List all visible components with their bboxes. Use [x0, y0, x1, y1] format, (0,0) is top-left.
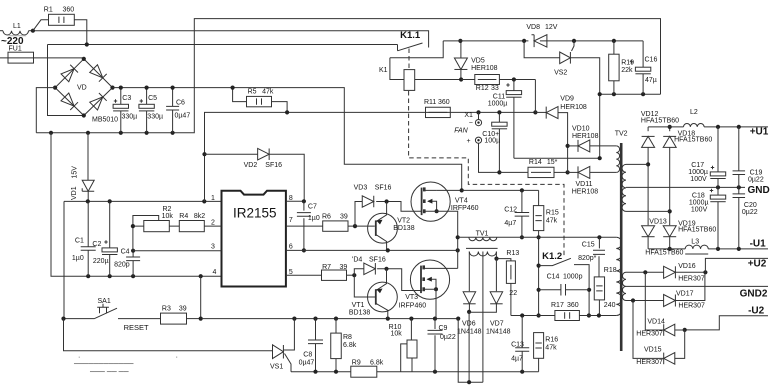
capacitor C4 820p	[132, 251, 134, 277]
wire reset row	[64, 318, 95, 320]
svg-text:C15: C15	[582, 241, 595, 248]
svg-text:C4: C4	[121, 249, 130, 256]
svg-text:C11: C11	[493, 93, 505, 100]
svg-text:VD9: VD9	[560, 96, 574, 103]
svg-text:VD17: VD17	[676, 291, 694, 298]
capacitor C18 1000u 100V	[717, 187, 719, 249]
wire -U1 rail	[648, 248, 768, 250]
svg-text:C18: C18	[692, 193, 705, 200]
svg-text:C12: C12	[504, 206, 517, 213]
svg-text:12V: 12V	[545, 24, 558, 31]
capacitor C8 0u47	[315, 319, 317, 372]
svg-text:HFA15TB60: HFA15TB60	[641, 117, 679, 124]
wire fuse line	[0, 57, 84, 59]
wire aux minus top row	[600, 93, 661, 95]
transformer TV2 primary	[616, 237, 622, 315]
capacitor C17 1000u 100V	[717, 127, 719, 187]
svg-text:K1.1: K1.1	[400, 30, 421, 41]
wire sec1 taps	[632, 164, 670, 211]
svg-text:SF16: SF16	[265, 162, 282, 169]
diode VD6 1N4148	[463, 292, 476, 304]
svg-text:R4: R4	[179, 213, 188, 220]
inductor L1	[0, 30, 3, 32]
svg-text:7: 7	[289, 217, 293, 224]
wire R17 row	[511, 315, 616, 317]
wire TV1 sec right	[495, 252, 497, 259]
svg-text:360: 360	[63, 7, 75, 14]
mech link dashed K1 to K1.2	[409, 91, 564, 258]
svg-text:VS1: VS1	[270, 364, 283, 371]
svg-text:L1: L1	[13, 23, 21, 30]
svg-text:VD8: VD8	[526, 24, 540, 31]
svg-text:FAN: FAN	[454, 127, 468, 134]
wire COM bus	[202, 318, 459, 320]
wire midpoint vertical	[457, 237, 459, 268]
svg-text:6: 6	[289, 244, 293, 251]
svg-text:4µ7: 4µ7	[511, 355, 523, 362]
svg-text:VT2: VT2	[397, 217, 410, 224]
svg-text:R17: R17	[551, 302, 564, 309]
transformer TV2 sec1	[622, 164, 626, 211]
wire +U2 rail	[705, 258, 768, 272]
wire VCC left drop	[63, 201, 65, 318]
zener VD1 15V	[87, 133, 89, 180]
capacitor C3 330u	[120, 88, 122, 133]
svg-text:HER307: HER307	[636, 359, 663, 366]
svg-text:100V: 100V	[691, 207, 708, 214]
capacitor C16 47u	[642, 41, 644, 94]
svg-text:VT3: VT3	[405, 294, 418, 301]
capacitor C11 1000u	[513, 80, 515, 159]
capacitor C1 1u0	[87, 201, 89, 276]
svg-text:10k: 10k	[391, 331, 403, 338]
svg-text:1µ0: 1µ0	[308, 215, 320, 222]
svg-text:VD1: VD1	[71, 186, 78, 200]
transformer TV2 core	[620, 143, 623, 351]
svg-text:HFA15TB60: HFA15TB60	[678, 227, 716, 234]
svg-text:RESET: RESET	[124, 323, 149, 332]
svg-text:100µ: 100µ	[484, 138, 500, 145]
wire TV1 sec left	[468, 252, 470, 292]
watermark	[73, 354, 178, 376]
svg-text:VD5: VD5	[471, 58, 485, 65]
svg-text:FU1: FU1	[9, 46, 22, 53]
svg-text:HER307: HER307	[636, 331, 663, 338]
svg-text:C6: C6	[176, 100, 185, 107]
transformer TV2 sec2	[622, 272, 626, 300]
capacitor C9 0u22	[434, 319, 436, 372]
capacitor C13 4u7	[521, 316, 523, 372]
svg-text:15V: 15V	[72, 166, 79, 179]
svg-text:VD7: VD7	[490, 321, 504, 328]
wire mains line A	[33, 30, 396, 32]
wire -U2 rail	[685, 316, 768, 330]
svg-text:-U2: -U2	[748, 305, 765, 316]
svg-text:R8: R8	[343, 334, 352, 341]
svg-text:22k: 22k	[621, 67, 633, 74]
svg-text:R12: R12	[476, 85, 489, 92]
svg-text:C9: C9	[439, 325, 448, 332]
svg-text:─── ── ──: ─── ── ──	[89, 369, 129, 376]
capacitor C20 0u22	[738, 187, 740, 249]
wire pin3 CT line	[133, 250, 222, 252]
svg-text:'D4: 'D4	[352, 257, 362, 264]
svg-text:TV2: TV2	[615, 131, 628, 138]
resistor R15 47k	[533, 206, 543, 231]
svg-text:C2: C2	[92, 241, 101, 248]
svg-text:47k: 47k	[262, 88, 274, 95]
transistor VT3 IRFP460	[410, 260, 449, 299]
capacitor C7 1u0	[303, 201, 305, 250]
svg-text:R11: R11	[424, 99, 436, 106]
svg-text:VD2: VD2	[244, 162, 258, 169]
svg-text:TV1: TV1	[476, 231, 489, 238]
wire cathode return loop	[458, 312, 483, 382]
svg-text:IRFP460: IRFP460	[451, 205, 479, 212]
svg-text:MB5010: MB5010	[92, 117, 118, 124]
wire mains line B	[48, 45, 398, 116]
svg-text:SA1: SA1	[98, 298, 111, 305]
svg-text:330µ: 330µ	[122, 114, 138, 121]
resistor R18 240	[594, 277, 604, 300]
svg-text:HER108: HER108	[471, 65, 498, 72]
svg-text:HFA15TB60: HFA15TB60	[645, 250, 683, 257]
svg-text:47k: 47k	[546, 218, 558, 225]
svg-text:+U2: +U2	[748, 259, 767, 270]
svg-text:360: 360	[438, 99, 450, 106]
svg-text:220µ: 220µ	[93, 258, 109, 265]
svg-text:360: 360	[567, 302, 579, 309]
svg-text:IR2155: IR2155	[233, 206, 277, 221]
svg-text:HFA15TB60: HFA15TB60	[674, 137, 712, 144]
op-amp U1 IR2155	[222, 191, 286, 287]
svg-text:C5: C5	[148, 95, 157, 102]
svg-text:BD138: BD138	[349, 310, 371, 317]
svg-text:R15: R15	[546, 210, 559, 217]
svg-text:-U1: -U1	[750, 239, 767, 250]
wire VCC pin1 line	[64, 200, 222, 202]
wire COM riser pin4	[200, 276, 202, 318]
svg-text:VT1: VT1	[352, 302, 365, 309]
svg-text:100V: 100V	[690, 176, 707, 183]
svg-text:+: +	[467, 138, 471, 145]
svg-text:4: 4	[213, 269, 217, 276]
svg-text:HER108: HER108	[572, 133, 599, 140]
svg-text:R9: R9	[352, 360, 361, 367]
resistor R8 6.8k	[335, 319, 337, 372]
svg-text:IRFP460: IRFP460	[399, 303, 427, 310]
svg-text:1N4148: 1N4148	[486, 329, 511, 336]
svg-text:0µ22: 0µ22	[440, 334, 456, 341]
svg-text:47µ: 47µ	[645, 77, 657, 84]
svg-text:8: 8	[289, 195, 293, 202]
transistor VT4 IRFP460	[411, 182, 450, 221]
wire vcc feed line	[205, 112, 536, 154]
bridge rectifier VD MB5010	[55, 59, 112, 116]
wire bottom sense bus	[291, 371, 539, 373]
svg-text:10k: 10k	[162, 213, 174, 220]
svg-text:HER307: HER307	[678, 302, 705, 309]
svg-text:C17: C17	[691, 162, 704, 169]
svg-text:HER108: HER108	[572, 188, 599, 195]
wire +U1 rail	[648, 126, 768, 128]
wire midpoint to TV2	[458, 236, 617, 238]
mech link dashed K1.1	[408, 49, 410, 70]
svg-text:R6: R6	[322, 214, 331, 221]
svg-text:6.8k: 6.8k	[343, 342, 357, 349]
svg-text:−: −	[469, 120, 473, 127]
svg-text:L3: L3	[691, 239, 699, 246]
svg-text:1µ0: 1µ0	[72, 255, 84, 262]
wire TV1 center tap	[482, 252, 484, 383]
svg-text:K1: K1	[379, 67, 388, 74]
capacitor C5 330u	[146, 88, 148, 133]
resistor R16 47k	[534, 333, 544, 359]
wire drain node line	[462, 190, 539, 205]
svg-text:R14: R14	[529, 159, 542, 166]
svg-text:47k: 47k	[545, 344, 557, 351]
svg-text:3: 3	[211, 244, 215, 251]
svg-text:VD14: VD14	[647, 319, 665, 326]
svg-text:R19: R19	[621, 60, 634, 67]
svg-text:C1: C1	[75, 237, 84, 244]
svg-text:VD15: VD15	[644, 347, 662, 354]
wire +310 rail	[113, 88, 462, 191]
wire VS1 anode line	[64, 319, 273, 351]
svg-text:VD13: VD13	[649, 218, 667, 225]
svg-text:VD3: VD3	[354, 184, 368, 191]
svg-text:C16: C16	[645, 57, 658, 64]
wire VD8 row	[443, 40, 643, 42]
svg-text:8k2: 8k2	[194, 213, 205, 220]
svg-text:X1: X1	[464, 112, 473, 119]
svg-text:0µ22: 0µ22	[748, 176, 764, 183]
svg-text:HER307: HER307	[678, 275, 705, 282]
diode VD2 SF16	[204, 154, 206, 201]
transformer TV2 aux winding	[616, 146, 619, 173]
svg-text:R18: R18	[604, 267, 617, 274]
capacitor C10 100u	[498, 112, 500, 172]
svg-text:VT4: VT4	[455, 197, 468, 204]
svg-text:0µ47: 0µ47	[299, 359, 315, 366]
svg-text:SF16: SF16	[375, 184, 392, 191]
transistor VT1 BD138	[368, 282, 398, 312]
wire aux minus row	[514, 94, 600, 158]
svg-text:0µ22: 0µ22	[742, 209, 758, 216]
svg-text:1: 1	[211, 195, 215, 202]
svg-text:15*: 15*	[547, 159, 558, 166]
wire GND2 rail	[633, 285, 768, 287]
wire minus bus	[36, 19, 660, 133]
wire GND rail	[632, 186, 746, 188]
svg-text:VS2: VS2	[554, 70, 567, 77]
svg-text:4µ7: 4µ7	[504, 220, 516, 227]
svg-text:GND: GND	[748, 185, 770, 196]
svg-text:VD11: VD11	[576, 181, 593, 188]
svg-text:330µ: 330µ	[147, 114, 163, 121]
svg-text:1000µ: 1000µ	[488, 101, 508, 108]
svg-text:L2: L2	[690, 109, 698, 116]
svg-text:R5: R5	[248, 88, 257, 95]
svg-text:VD16: VD16	[678, 263, 696, 270]
svg-text:0µ47: 0µ47	[175, 113, 191, 120]
capacitor C12 4u7	[521, 190, 523, 237]
svg-text:39: 39	[179, 306, 187, 313]
diode VD7 1N4148	[495, 259, 497, 292]
wire pin8 stub	[286, 200, 304, 202]
svg-text:R1: R1	[44, 7, 53, 14]
svg-text:+U1: +U1	[750, 127, 769, 138]
svg-text:R3: R3	[162, 306, 171, 313]
capacitor C2 220u	[109, 201, 111, 276]
svg-text:VD10: VD10	[572, 126, 590, 133]
svg-text:BD138: BD138	[393, 225, 415, 232]
svg-text:HER108: HER108	[560, 104, 587, 111]
transistor VT2 BD138	[368, 213, 398, 243]
svg-text:GND2: GND2	[740, 289, 768, 300]
svg-text:820p*: 820p*	[578, 255, 597, 262]
svg-text:39: 39	[340, 214, 348, 221]
wire VT1 base	[354, 275, 376, 297]
svg-text:R13: R13	[506, 250, 519, 257]
svg-text:SF16: SF16	[369, 257, 386, 264]
wire gnd line C1C2C4	[51, 133, 222, 276]
svg-text:VD: VD	[77, 85, 87, 92]
svg-text:6.8k: 6.8k	[370, 360, 384, 367]
svg-text:1000µ: 1000µ	[688, 169, 708, 176]
svg-text:820p: 820p	[114, 262, 130, 269]
svg-text:K1.2: K1.2	[542, 251, 562, 262]
svg-text:C7: C7	[308, 204, 317, 211]
svg-text:C13: C13	[511, 341, 524, 348]
capacitor C19 0u22	[738, 127, 740, 187]
svg-text:240: 240	[604, 302, 616, 309]
svg-text:R16: R16	[545, 337, 558, 344]
svg-text:────────────: ────────────	[73, 361, 134, 368]
svg-text:1000p: 1000p	[563, 274, 583, 281]
wire pin6 VS line	[286, 249, 458, 251]
thyristor VS1	[273, 345, 284, 359]
svg-text:2: 2	[211, 219, 215, 226]
svg-text:C3: C3	[122, 95, 131, 102]
svg-text:1000µ: 1000µ	[689, 200, 709, 207]
svg-text:C14: C14	[547, 274, 560, 281]
svg-text:C8: C8	[303, 351, 312, 358]
capacitor C6 0u47	[172, 88, 174, 133]
wire bridge minus	[36, 88, 55, 133]
svg-text:33: 33	[491, 85, 499, 92]
